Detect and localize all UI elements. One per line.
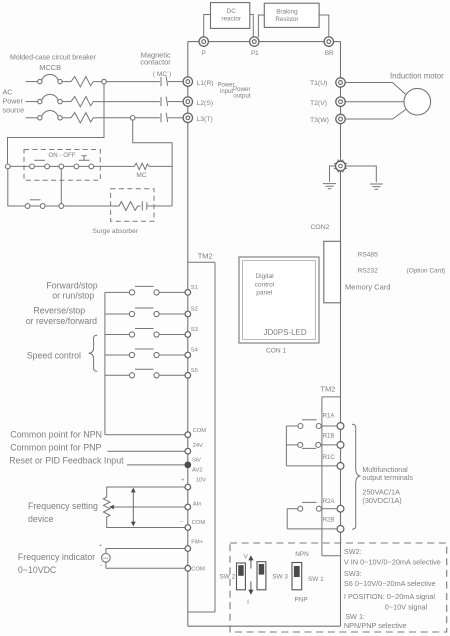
wire: control feed from phase R tap down and left [8,84,105,164]
switch S5: right contact [154,373,159,378]
terminal COM (FM return) [185,566,191,572]
svg-text:source: source [3,106,25,115]
svg-text:V IN 0~10V/0~20mA selective: V IN 0~10V/0~20mA selective [344,557,441,566]
switch row S5: wire from rail [105,374,129,376]
wire: top rail holding P / P1 / BR [188,41,341,43]
svg-text:RS232: RS232 [358,268,378,275]
svg-text:FM+: FM+ [191,540,203,546]
arrow: adjustment double arrow [132,492,134,522]
svg-text:FM: FM [103,557,108,561]
arrow: potentiometer wiper [109,505,114,510]
terminal FM+ [185,546,191,552]
pushbutton ON: bridge bar [34,159,45,161]
svg-text:DC: DC [227,8,237,15]
svg-text:AC: AC [3,88,13,97]
terminal COM (analog) [185,525,191,531]
wire: T1(U) to motor [345,83,405,95]
switch S4: bridge bar [135,348,154,350]
DIP switch SW2: knob [238,565,244,576]
svg-text:S5: S5 [191,368,198,374]
ground symbol left [323,184,336,189]
terminal R2B [337,526,344,533]
svg-text:SW 3: SW 3 [272,573,288,580]
svg-text:R1B: R1B [323,434,335,440]
svg-text:reactor: reactor [221,15,241,22]
breaker MCCB pole 2: right contact [58,99,62,103]
switch row S2: wire from rail [105,313,129,315]
svg-text:L2(S): L2(S) [197,100,214,107]
svg-text:Power: Power [3,97,24,106]
svg-text:MC: MC [136,172,146,179]
wire: pole 1 to contactor contact 1 [93,81,160,83]
svg-text:COM: COM [191,567,205,573]
resistor box: Braking Resistor [264,3,319,27]
svg-text:SW3:: SW3: [344,569,362,578]
svg-text:CON 1: CON 1 [266,348,286,355]
svg-text:or run/stop: or run/stop [52,291,94,301]
node: row contact [59,164,64,169]
relay contact R1B: left contact [298,442,303,447]
breaker MCCB pole 3: right contact [58,116,62,120]
meter FM: frequency indicator [102,554,111,563]
breaker MCCB pole 2: left contact [38,99,42,103]
terminal AIn [185,504,191,510]
svg-text:L1(R): L1(R) [197,80,214,87]
contactor MC main contact 2 [161,97,168,107]
svg-text:Common point for PNP: Common point for PNP [10,443,101,453]
terminal T2(V) [336,97,345,106]
svg-text:TM2: TM2 [320,384,335,393]
wire: PNP common row [107,450,185,452]
svg-text:MCCB: MCCB [39,63,61,72]
capacitor: surge absorber C [142,201,147,210]
wire: potentiometer bottom to COM row [107,517,185,528]
node: junction on ON-OFF row [5,164,10,169]
svg-text:(Option Card): (Option Card) [407,268,446,275]
brace: speed control group [89,335,98,371]
svg-text:Braking: Braking [276,9,298,16]
switch S1: right contact [154,290,159,295]
terminal S4 [185,352,191,358]
svg-text:Digital: Digital [255,273,274,280]
svg-text:or reverse/forward: or reverse/forward [26,316,97,326]
relay contact R2A: left contact [298,506,303,511]
svg-text:0~10VDC: 0~10VDC [18,565,57,575]
terminal S1 [185,290,191,296]
pushbutton OFF: contact [89,164,94,169]
switch S4: right contact [154,352,159,357]
terminal COM (NPN common) [185,432,191,438]
contactor MC main contact 1 [161,77,168,87]
breaker MCCB pole 3: lead-in wire [26,117,38,119]
breaker MCCB pole 1: right contact [58,79,62,83]
terminal T3(W) [336,114,345,123]
terminal R1A [337,423,344,430]
node: control circuit tap on phase R [102,79,107,84]
terminal strip TM2 right: outline [322,397,341,556]
svg-text:Frequency indicator: Frequency indicator [18,552,95,562]
svg-text:input: input [220,89,233,95]
svg-text:ON - OFF: ON - OFF [48,152,75,159]
wire: COM row (meter return) [106,567,185,569]
svg-text:Resistor: Resistor [275,16,298,23]
svg-text:I: I [247,599,249,606]
svg-text:24V: 24V [193,443,203,449]
DIP switch SW3: body [257,562,266,590]
svg-text:Multifunctional: Multifunctional [362,466,408,474]
breaker MCCB pole 2: thermal element zigzag [71,96,93,106]
relay contact R1B: right contact [316,442,321,447]
wire: relay R2 common rail [286,509,288,529]
node: MC coil tap on phase T [130,116,135,121]
svg-text:Memory Card: Memory Card [345,283,390,292]
wire: pole 2 to contactor contact 2 [93,101,160,103]
dashed box: DIP switch selector area [230,543,447,632]
arrow: V select up [250,560,252,569]
svg-text:panel: panel [256,290,272,297]
switch S1: left contact [129,290,134,295]
svg-text:AIn: AIn [193,502,202,508]
relay contact R1B: bridge bar [302,447,316,449]
wire: inverter bottom rail [188,625,341,627]
svg-text:NPN/PNP selective: NPN/PNP selective [344,621,407,630]
switch row S1: wire from rail [105,291,129,293]
svg-text:R2B: R2B [323,517,335,523]
dashed box: ON - OFF [24,150,100,181]
svg-text:0~10V signal: 0~10V signal [385,603,428,612]
breaker MCCB pole 2: lead-in wire [26,101,38,103]
terminal P [199,37,208,46]
breaker MCCB pole 1: lead-in wire [26,81,38,83]
breaker MCCB pole 1: thermal element zigzag [71,76,93,86]
arrow: I select down [250,582,252,591]
svg-text:PNP: PNP [295,596,308,603]
terminal L2(S) [183,97,192,106]
wire: ON-OFF row segments [10,165,134,167]
node: row contact 2 [74,164,79,169]
terminal 10V [185,484,191,490]
relay contact R2A: right contact [316,506,321,511]
svg-text:V: V [244,554,249,561]
wire: aux row junction up to ON-OFF row [60,169,62,204]
wire: MC coil to right node [149,165,172,167]
wire: contact 2 to terminal L2(S) [168,101,183,103]
switch S2: right contact [154,311,159,316]
svg-text:Speed control: Speed control [27,351,81,361]
dashed box: surge absorber [111,189,154,222]
wire: braking resistor left lead down to terminal P1 [258,15,264,37]
svg-text:contactor: contactor [140,58,171,67]
node: aux row junction [59,204,64,209]
wire: braking resistor right lead down to terminal BR [319,15,329,37]
terminal P1 [250,37,259,46]
wire: R1B contact to terminal [321,444,337,446]
svg-text:TM2: TM2 [198,251,213,260]
wire: common to terminal R2B [287,528,337,530]
switch S1: bridge bar [135,285,154,287]
svg-text:Forward/stop: Forward/stop [46,280,97,290]
switch S2: left contact [129,311,134,316]
wire: NPN common row [105,434,185,436]
wire: switch to terminal S3 [159,334,185,336]
wire: phase T tap link down to coil node [133,120,172,206]
wire: 10V row to potentiometer top [107,487,185,497]
aux contact MC: right contact [40,204,45,209]
wire: common to terminal R1C [286,465,336,467]
terminal 24V [185,448,191,454]
wire: left rail down to auxiliary row [8,169,25,206]
svg-text:T3(W): T3(W) [310,117,329,124]
digital control panel box [239,257,319,343]
terminal strip TM2 left: outline [188,262,215,612]
breaker MCCB pole 1: arc [42,74,59,80]
wire: DC reactor down to terminal P1 [250,15,254,38]
svg-text:S4: S4 [191,348,199,354]
svg-text:+: + [99,543,102,549]
wire: contact 1 to terminal L1(R) [168,81,183,83]
terminal S6/AV2 (filled) [185,462,191,468]
reactor box: DC reactor [211,3,250,29]
terminal BR [324,37,333,46]
svg-text:RS485: RS485 [358,252,378,259]
svg-text:output: output [233,92,250,99]
svg-text:(30VDC/1A): (30VDC/1A) [362,496,401,505]
svg-text:T1(U): T1(U) [310,80,327,87]
svg-text:control: control [255,282,275,289]
svg-text:SW 1:: SW 1: [345,612,365,621]
svg-text:T2(V): T2(V) [310,100,327,107]
svg-text:S6/: S6/ [192,458,201,464]
wire: switch to terminal S2 [159,313,185,315]
wire: meter top lead [105,549,107,554]
DIP switch SW3: knob [259,564,265,575]
ground symbol right [370,184,383,189]
svg-text:output terminals: output terminals [362,474,413,482]
svg-text:S2: S2 [191,307,198,313]
breaker MCCB pole 3: left contact [38,116,42,120]
svg-text:R1A: R1A [323,413,335,419]
svg-text:Surge absorber: Surge absorber [93,228,139,235]
relay contact R1A: left contact [298,424,303,429]
terminal E: earth terminal [334,160,347,173]
aux contact MC: left contact [25,204,30,209]
wire: T2(V) to motor [345,101,404,103]
svg-text:−: − [180,520,184,526]
wire: auxiliary contact row [30,205,119,207]
svg-text:Power: Power [218,83,235,89]
breaker MCCB pole 2: wire to thermal element [62,101,71,103]
pushbutton ON: contacts [30,164,35,169]
aux contact MC: bridge bar [30,199,41,201]
DIP switch SW1: knob [294,566,300,577]
svg-text:Frequency setting: Frequency setting [28,501,98,511]
resistor: surge absorber R [119,202,141,211]
motor M1: induction motor circle [404,88,431,115]
coil MC: contactor coil [134,163,149,169]
switch row S4: wire from rail [105,354,129,356]
brace: multifunctional output terminals group [352,424,360,529]
svg-text:S6 0~10V/0~20mA selective: S6 0~10V/0~20mA selective [344,579,436,588]
switch S3: right contact [154,332,159,337]
wire: FM+ row [106,548,185,550]
svg-text:COM: COM [193,428,207,434]
wire: meter bottom lead [105,562,107,568]
switch S4: left contact [129,352,134,357]
switch S2: bridge bar [135,307,154,309]
breaker MCCB pole 3: thermal element zigzag [71,113,93,123]
switch S3: bridge bar [135,328,154,330]
svg-text:BR: BR [325,50,334,57]
terminal T1(U) [336,78,345,87]
svg-text:R2A: R2A [323,499,335,505]
svg-text:Common point for NPN: Common point for NPN [10,429,102,439]
relay contact R1A: wire from rail [286,425,298,427]
wire: surge absorber to coil node [147,205,172,207]
svg-text:Induction motor: Induction motor [390,72,444,81]
relay contact R1B: wire from rail [286,444,297,446]
terminal S3 [185,332,191,338]
svg-text:Reverse/stop: Reverse/stop [33,305,85,315]
terminal R1B [337,442,344,449]
wire: R1A contact to terminal [321,425,337,427]
wire: contact 3 to terminal L3(T) [168,117,183,119]
svg-text:SW 2: SW 2 [220,573,236,580]
terminal S5 [185,373,191,379]
connector CON2 box [324,241,341,302]
wire: S6 row [127,464,185,466]
wire: T3(W) to motor [345,110,405,119]
svg-text:P: P [202,50,206,57]
terminal R2A [337,505,344,512]
svg-text:Molded-case circuit breaker: Molded-case circuit breaker [10,55,97,62]
wire: R2A contact to terminal [321,508,336,510]
switch S5: left contact [129,373,134,378]
contactor MC main contact 3 [161,113,168,123]
switch S3: left contact [129,332,134,337]
svg-text:10V: 10V [196,478,206,484]
breaker MCCB pole 1: left contact [38,79,42,83]
wire: earth right branch [346,166,377,182]
breaker MCCB pole 3: arc [42,111,59,117]
pushbutton OFF: bridge bar and actuator [79,156,90,161]
svg-text:−: − [99,563,102,569]
DIP switch SW1: body [292,563,302,590]
svg-text:P1: P1 [251,50,259,57]
terminal L1(R) [183,77,192,86]
svg-text:SW 1: SW 1 [308,576,324,583]
relay contact R1A: bridge bar [302,419,317,421]
svg-text:S1: S1 [191,285,198,291]
breaker MCCB pole 1: wire to thermal element [62,81,71,83]
svg-text:S3: S3 [191,327,198,333]
switch S5: bridge bar [135,368,154,370]
svg-text:device: device [28,514,54,524]
wire: pole 3 to contactor contact 3 [93,117,160,119]
wire: switch to terminal S1 [159,291,185,293]
svg-text:NPN: NPN [295,551,309,558]
terminal R1C [337,463,344,470]
svg-text:CON2: CON2 [311,224,330,231]
svg-text:AV2: AV2 [192,468,203,474]
relay contact R2A: wire from rail [287,508,298,510]
svg-text:I POSITION: 0~20mA signal: I POSITION: 0~20mA signal [344,592,435,601]
wire: switch common rail (left) [104,292,106,434]
svg-text:SW2:: SW2: [344,547,362,556]
svg-text:COM: COM [192,520,206,526]
svg-text:( MC ): ( MC ) [153,71,171,78]
wire: switch to terminal S5 [159,374,185,376]
svg-text:R1C: R1C [323,455,336,461]
svg-text:L3(T): L3(T) [197,116,213,123]
wire: terminal P up to DC reactor [204,15,211,38]
DIP switch SW2: body [237,563,246,590]
relay contact R2A: bridge bar [302,501,317,503]
relay contact R1A: right contact [316,424,321,429]
potentiometer VR1: frequency setting resistor [103,497,110,517]
svg-text:Reset or PID Feedback Input: Reset or PID Feedback Input [9,455,124,465]
terminal S2 [185,311,191,317]
wire: relay R1 common rail [285,426,287,466]
breaker MCCB pole 2: arc [42,94,59,100]
svg-text:JD0PS-LED: JD0PS-LED [264,328,307,337]
breaker MCCB pole 3: wire to thermal element [62,117,71,119]
wire: wiper to AIn terminal [114,506,185,508]
wire: inverter right bus (vertical rail) [340,42,342,627]
wire: earth left branch [330,166,336,182]
switch row S3: wire from rail [105,334,129,336]
wire: inverter left bus (vertical rail with control terminals) [187,42,189,627]
terminal L3(T) [183,113,192,122]
wire: switch to terminal S4 [159,354,185,356]
